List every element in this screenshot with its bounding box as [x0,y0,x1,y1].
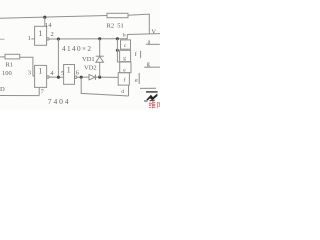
op-amp U3 gate 3 (7404 inverter pins 5-6) [64,65,75,85]
svg-text:VD1: VD1 [82,56,95,63]
svg-text:D: D [0,86,5,93]
watermark dark bar [146,91,158,93]
svg-text:5: 5 [61,70,64,77]
display cell box f [118,73,129,85]
display segment pin letters [121,33,150,96]
node junction pin14 [43,16,46,19]
svg-text:V: V [151,28,156,35]
watermark logo blob [146,94,157,102]
gate symbol labels "1" [38,29,70,75]
node junction display c pin [116,49,119,52]
wire VCC top rail [0,16,107,19]
wire pin1 input stub at left edge [0,38,5,40]
svg-text:g: g [123,56,126,62]
wire VD2 cathode to display f [96,76,119,78]
node junction VD1 cathode [98,37,101,40]
wire display pin bus [116,39,118,62]
op-amp U1 gate 1 (7404 inverter pins 1-2) [35,26,47,45]
svg-text:14: 14 [45,22,52,29]
node junction pin4-5 [57,76,60,79]
node junction pin6 branch [80,76,83,79]
svg-text:100: 100 [2,70,12,77]
svg-text:f: f [124,76,126,83]
svg-text:4: 4 [50,70,54,77]
wire R2 to corner [128,14,149,34]
svg-text:1: 1 [67,65,71,74]
svg-text:1: 1 [38,29,42,38]
svg-text:7404: 7404 [48,97,69,106]
resistor R2 [107,13,128,17]
svg-text:R2 51: R2 51 [107,22,124,29]
wire e box top to bus [117,61,119,63]
text labels [0,22,156,106]
wire V supply line along display top [127,33,160,36]
segment d bar [140,87,156,89]
svg-text:a: a [148,38,151,45]
wire pin6 output [77,76,89,78]
node junction pin2/vertical [57,37,60,40]
svg-text:3: 3 [28,69,31,76]
display cell box c [121,40,131,49]
wire pin1 to gate1 [31,38,34,40]
node junction VD1 anode [98,76,101,79]
wire pin7 stub [38,87,40,95]
pin bubble gate2 output [47,76,49,78]
svg-text:库: 库 [157,100,161,110]
svg-text:R1: R1 [6,62,14,69]
svg-text:6: 6 [76,69,80,76]
svg-text:e: e [135,77,138,84]
svg-text:1: 1 [28,35,31,42]
display cell d right edge [128,85,130,96]
wire pin4 to pin5 [49,76,64,78]
diode VD2 [89,75,96,80]
wire display b input step to V line [117,35,127,39]
svg-text:g: g [147,60,150,67]
resistor R1 [0,56,5,58]
wire pin14 stub [44,17,46,26]
diode VD1 vertical [96,39,104,77]
op-amp U2 gate 2 (7404 inverter pins 3-4) [35,65,47,87]
svg-text:7: 7 [41,88,45,95]
watermark tick [144,100,148,102]
svg-text:1: 1 [38,66,42,75]
svg-text:d: d [121,89,124,95]
svg-text:4140×2: 4140×2 [62,45,91,53]
segment a bar [146,43,160,45]
wire D ground net [0,95,39,97]
node junction display b pin [116,37,119,40]
svg-text:2: 2 [51,31,54,38]
pin bubble gate1 output [47,38,49,40]
display cell box e [120,62,131,73]
svg-text:c: c [124,43,127,49]
svg-text:f: f [135,51,138,58]
segment f bar [140,51,142,58]
wire R1 to pin3 [20,57,35,76]
svg-text:维: 维 [149,100,157,110]
watermark red text [149,100,165,110]
pin bubble gate3 output [75,76,77,78]
segment g bar [144,66,160,68]
wire pin2 output to display b [49,38,117,40]
svg-text:VD2: VD2 [84,64,97,71]
display cell box g [120,50,131,61]
wire c pin stub [117,49,119,51]
wire pin6 down to segment d [81,77,128,96]
segment e bar [138,73,140,84]
svg-text:b: b [123,33,126,39]
wire vertical pin2 to pin4 net [57,39,59,77]
